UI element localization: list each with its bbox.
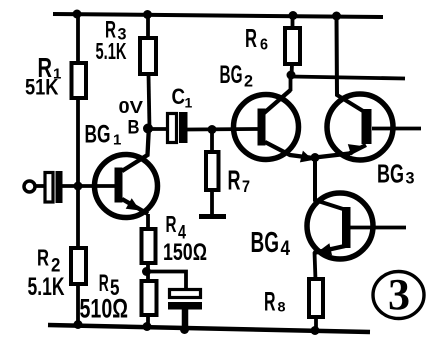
wire R6 top stub xyxy=(291,15,295,29)
node R7 junction xyxy=(208,125,217,134)
wire R5 bottom stub xyxy=(146,315,150,328)
node emitters junction xyxy=(311,153,320,162)
wire R4 to R5 xyxy=(146,263,150,282)
svg-text:3: 3 xyxy=(388,270,410,319)
wire R6 bottom stub xyxy=(290,64,294,76)
node base divider junction xyxy=(74,182,83,191)
wire R3 bottom to node B xyxy=(149,74,150,129)
transistor BG4 xyxy=(307,193,373,259)
svg-text:8: 8 xyxy=(278,299,286,315)
wire R7 to ground xyxy=(210,190,214,216)
resistor R1 xyxy=(72,63,87,98)
svg-text:B: B xyxy=(128,118,140,139)
node R4-R5 junction xyxy=(142,267,151,276)
transistor BG2 xyxy=(234,95,299,160)
wire output line right xyxy=(291,77,405,79)
node R8 ground junction xyxy=(311,326,320,335)
node R6 bottom junction xyxy=(287,71,296,80)
wire emitter junction down to BG4 collector xyxy=(315,158,343,210)
node R6 top junction xyxy=(289,11,298,20)
svg-text:150Ω: 150Ω xyxy=(163,239,207,266)
svg-text:1: 1 xyxy=(185,95,193,111)
wire R6 to BG2 collector xyxy=(289,75,293,91)
figure number circle xyxy=(373,272,424,319)
svg-text:BG: BG xyxy=(251,227,280,259)
resistor R4 xyxy=(142,229,156,263)
resistor R8 xyxy=(309,279,323,317)
svg-text:510Ω: 510Ω xyxy=(80,294,129,324)
svg-text:5.1K: 5.1K xyxy=(96,38,127,64)
wire BG1 emitter to R4 xyxy=(146,214,150,230)
svg-text:7: 7 xyxy=(242,177,250,196)
wire BG4 base lead xyxy=(350,226,406,230)
resistor R7 xyxy=(206,152,219,190)
svg-text:1: 1 xyxy=(113,132,121,149)
svg-text:R: R xyxy=(245,23,257,53)
wire node B to C1 xyxy=(148,127,168,131)
svg-text:3: 3 xyxy=(406,169,415,188)
wire R8 bottom stub xyxy=(314,317,318,332)
node R3 top junction xyxy=(143,10,152,19)
capacitor bypass top plate xyxy=(170,290,201,298)
node R5 ground junction xyxy=(143,322,152,331)
svg-text:BG: BG xyxy=(377,159,404,189)
svg-text:5.1K: 5.1K xyxy=(28,273,65,301)
resistor R2 xyxy=(71,248,86,284)
wire rail to BG3 collector xyxy=(337,16,364,111)
resistor R3 xyxy=(140,38,156,74)
wire input to coupling cap xyxy=(35,184,45,188)
svg-text:R: R xyxy=(264,287,276,317)
wire R7 top stub xyxy=(210,129,214,153)
capacitor input coupling right plate xyxy=(56,171,63,203)
svg-text:BG: BG xyxy=(220,61,243,89)
svg-text:4: 4 xyxy=(281,237,291,260)
wire BG4 emitter to R8 xyxy=(315,252,316,280)
wire cap to BG1 base xyxy=(63,184,116,188)
svg-text:R: R xyxy=(166,211,177,237)
resistor R5 xyxy=(142,281,157,315)
svg-text:C: C xyxy=(172,84,186,109)
svg-text:BG: BG xyxy=(85,121,111,149)
svg-text:6: 6 xyxy=(260,37,268,54)
capacitor C1 left plate xyxy=(168,114,177,143)
wire bottom ground rail xyxy=(48,325,370,332)
transistor BG3 xyxy=(327,94,393,160)
wire R3 top stub xyxy=(146,14,150,39)
wire emitter junction to BG3 emitter xyxy=(315,145,366,158)
wire bypass cap branch xyxy=(147,272,187,291)
node R2 ground junction xyxy=(74,320,83,329)
node B xyxy=(143,124,153,134)
svg-text:2: 2 xyxy=(244,72,253,91)
svg-text:51K: 51K xyxy=(25,75,59,100)
svg-text:R: R xyxy=(37,245,49,271)
wire R1 top stub xyxy=(76,14,80,64)
wire C1 to BG2 base xyxy=(188,127,259,131)
capacitor input coupling left plate xyxy=(45,173,53,203)
wire R2 bottom stub xyxy=(76,284,80,327)
wire top supply rail xyxy=(53,14,383,17)
input terminal xyxy=(24,181,35,192)
capacitor C1 right plate xyxy=(179,112,188,143)
wire R1 bottom to base node xyxy=(76,98,80,249)
ground xyxy=(199,214,226,219)
transistor BG1 xyxy=(95,155,158,218)
node BG3 collector rail junction xyxy=(332,12,341,21)
node junction top-left xyxy=(73,10,82,19)
wire bypass cap to ground rail xyxy=(182,309,189,330)
resistor R6 xyxy=(285,28,300,64)
capacitor bypass bottom plate xyxy=(168,302,202,310)
wire BG3 base lead xyxy=(372,127,421,131)
svg-text:R: R xyxy=(228,165,241,196)
svg-text:0V: 0V xyxy=(119,97,144,117)
node bypass cap ground junction xyxy=(180,325,189,334)
